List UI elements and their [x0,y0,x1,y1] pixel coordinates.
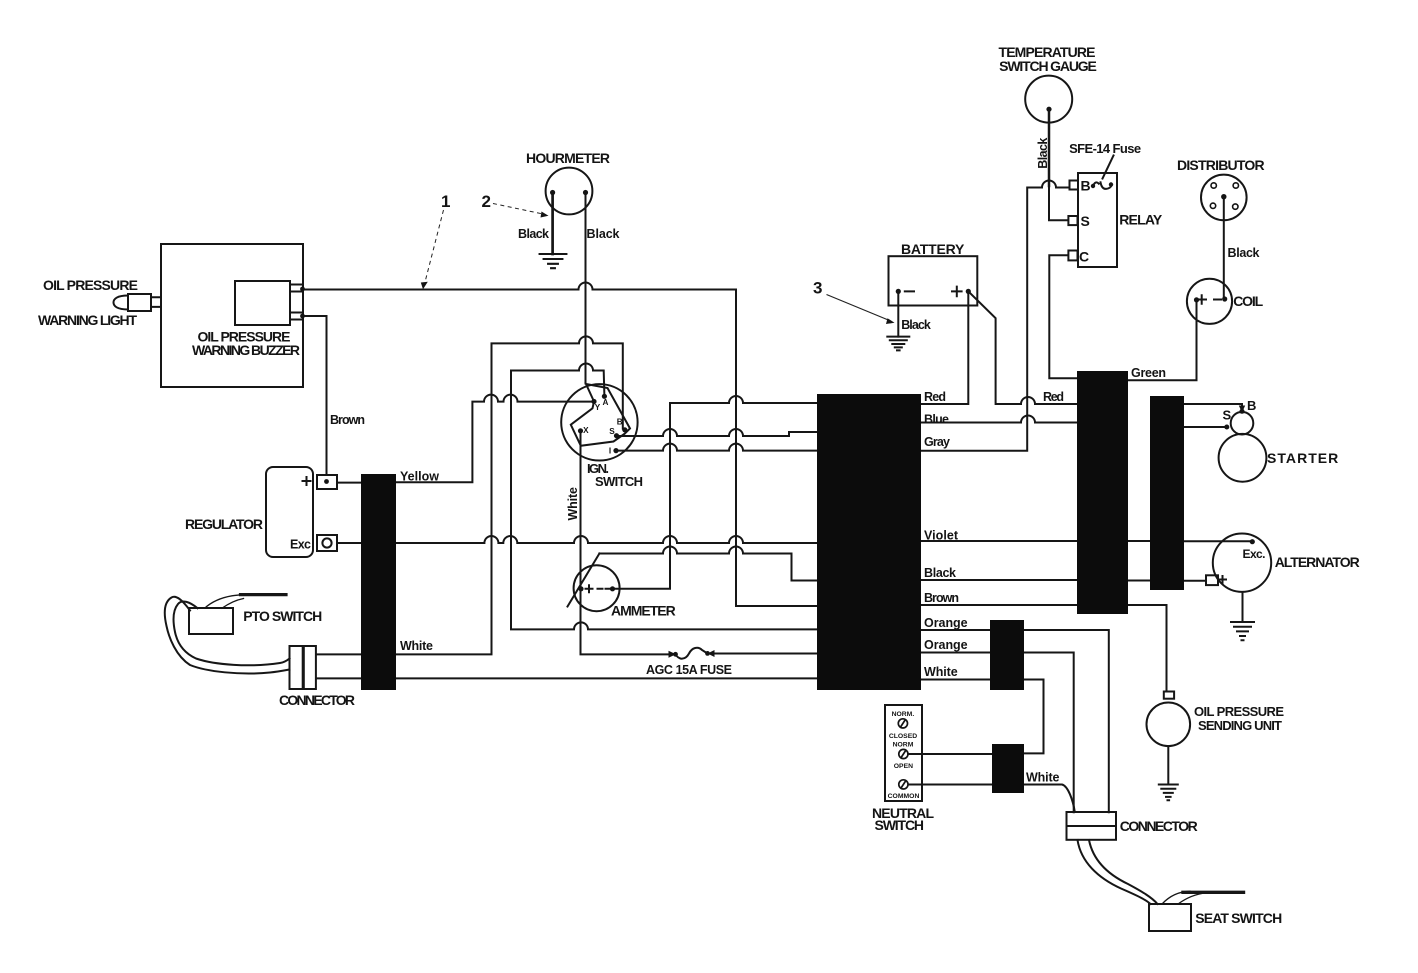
svg-text:White: White [566,487,580,521]
svg-text:AMMETER: AMMETER [611,602,676,618]
svg-text:3: 3 [813,279,822,298]
svg-text:B: B [617,418,623,427]
svg-text:SENDING UNIT: SENDING UNIT [1198,718,1282,733]
svg-text:S: S [1081,213,1090,229]
svg-text:SEAT SWITCH: SEAT SWITCH [1195,910,1282,926]
svg-text:AGC 15A FUSE: AGC 15A FUSE [646,663,732,677]
svg-text:1: 1 [441,192,450,211]
svg-text:HOURMETER: HOURMETER [526,150,610,166]
svg-text:OIL PRESSURE: OIL PRESSURE [43,277,138,293]
svg-text:Black: Black [924,566,956,580]
svg-text:COMMON: COMMON [888,793,920,800]
svg-text:White: White [400,639,433,653]
svg-text:Exc.: Exc. [1243,547,1266,561]
svg-text:Violet: Violet [924,529,959,543]
svg-text:S: S [609,427,615,436]
svg-text:SFE-14 Fuse: SFE-14 Fuse [1069,141,1141,156]
svg-text:Orange: Orange [924,616,968,630]
svg-text:Red: Red [924,390,946,404]
svg-text:S: S [1223,408,1232,423]
svg-text:A: A [603,398,609,407]
svg-text:Brown: Brown [924,591,959,605]
svg-text:Black: Black [1036,138,1050,169]
svg-text:Orange: Orange [924,638,968,652]
svg-text:Black: Black [1228,246,1260,260]
svg-text:C: C [1079,249,1089,265]
svg-text:Black: Black [587,227,620,241]
svg-text:NORM: NORM [893,742,914,749]
svg-text:Y: Y [595,403,601,412]
svg-text:PTO SWITCH: PTO SWITCH [243,608,322,624]
svg-text:DISTRIBUTOR: DISTRIBUTOR [1177,157,1265,173]
svg-text:Blue: Blue [924,413,949,427]
svg-text:Exc: Exc [290,538,311,552]
svg-text:ALTERNATOR: ALTERNATOR [1275,554,1360,570]
svg-text:White: White [1026,771,1059,785]
svg-text:CONNECTOR: CONNECTOR [1120,818,1198,834]
svg-text:STARTER: STARTER [1267,450,1338,466]
svg-text:B: B [1247,398,1256,413]
svg-text:CLOSED: CLOSED [889,733,917,740]
svg-text:SWITCH: SWITCH [595,474,643,489]
svg-text:Red: Red [1043,390,1064,404]
svg-text:OIL PRESSURE: OIL PRESSURE [1194,704,1284,719]
svg-text:BATTERY: BATTERY [901,241,965,257]
svg-text:SWITCH GAUGE: SWITCH GAUGE [999,58,1097,74]
svg-text:REGULATOR: REGULATOR [185,516,263,532]
svg-text:X: X [583,426,589,435]
svg-text:Green: Green [1131,366,1166,380]
svg-text:Gray: Gray [924,435,950,449]
svg-text:Brown: Brown [330,413,365,427]
svg-text:COIL: COIL [1233,293,1263,309]
svg-text:SWITCH: SWITCH [875,817,925,833]
svg-text:OPEN: OPEN [894,763,913,770]
svg-text:Black: Black [901,318,931,332]
svg-text:RELAY: RELAY [1119,212,1163,228]
svg-text:WARNING BUZZER: WARNING BUZZER [192,342,300,358]
svg-text:CONNECTOR: CONNECTOR [279,692,355,708]
svg-text:2: 2 [482,192,491,211]
svg-text:B: B [1081,178,1091,194]
svg-text:NORM.: NORM. [892,711,915,718]
svg-text:I: I [609,447,611,456]
svg-text:Black: Black [518,227,549,241]
svg-text:Yellow: Yellow [400,470,439,484]
svg-text:WARNING LIGHT: WARNING LIGHT [38,312,137,328]
svg-text:White: White [924,665,958,679]
